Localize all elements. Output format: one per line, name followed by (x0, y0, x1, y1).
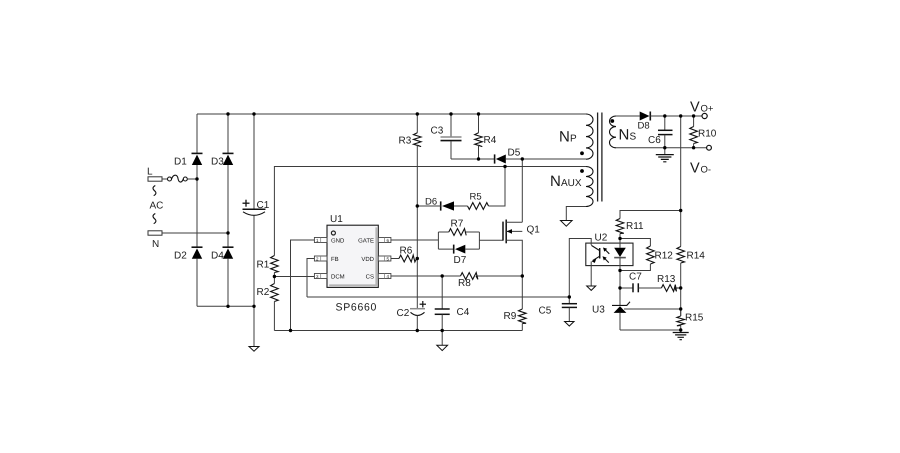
svg-text:D8: D8 (638, 121, 650, 132)
svg-text:U1: U1 (330, 214, 343, 225)
wire Vo- rail (616, 147, 707, 149)
capacitor C1 (243, 114, 270, 306)
svg-text:C1: C1 (257, 200, 270, 211)
capacitor C7 (620, 272, 661, 293)
node N terminal (148, 231, 162, 250)
pin 4 CS (366, 273, 391, 280)
svg-text:U2: U2 (595, 233, 608, 244)
op-amp U1 (SP6660 controller IC) (327, 214, 378, 314)
wire primary ground bus (274, 330, 522, 332)
svg-text:O-: O- (701, 165, 712, 176)
svg-text:R5: R5 (470, 192, 482, 203)
wire LED cathode down to U3 (619, 271, 621, 306)
node Vo- terminal (690, 145, 711, 176)
pin 5 VDD (361, 256, 391, 263)
transistor U2 phototransistor (591, 245, 600, 285)
ground (C5) (565, 322, 574, 327)
svg-text:C5: C5 (539, 306, 552, 317)
wire Naux bottom to ground (566, 207, 586, 221)
U2 light arrows (603, 248, 610, 263)
wire VDD column (R3 to D6 node to R6 node to C2) (416, 145, 418, 308)
transformer secondary Ns (610, 116, 637, 148)
diode D6 (417, 197, 467, 211)
svg-text:AUX: AUX (561, 178, 582, 189)
wire aux tap down to R5 (489, 167, 506, 207)
ground (C6, earth bars) (656, 148, 674, 162)
svg-text:R4: R4 (484, 135, 497, 146)
svg-text:VDD: VDD (361, 256, 374, 263)
svg-text:R15: R15 (685, 313, 704, 324)
ground (Naux) (561, 221, 573, 227)
resistor R10 (690, 116, 717, 148)
diode D5 (495, 148, 521, 164)
resistor R13 (657, 274, 681, 291)
wire N to bridge (162, 232, 228, 234)
wire U1 FB down to feedback line (307, 259, 314, 298)
svg-text:N: N (559, 129, 570, 146)
svg-text:N: N (619, 127, 630, 144)
wire U1 GND to ground bus (291, 240, 315, 331)
wire Ns top to D8 (616, 115, 640, 117)
wire left bridge column (196, 114, 198, 306)
diode D1 (174, 153, 203, 167)
wire top bus (197, 113, 586, 115)
wire clamp line A (C3/R4 to D5 to Np bottom) (451, 158, 586, 160)
svg-text:FB: FB (331, 256, 339, 263)
svg-text:R1: R1 (257, 260, 270, 271)
svg-text:R6: R6 (400, 246, 413, 257)
wire R7/D7 to Q1 gate (479, 239, 503, 241)
svg-text:D3: D3 (211, 157, 224, 168)
wire R1-R2 junction to DCM (274, 273, 314, 284)
svg-text:R10: R10 (698, 129, 717, 140)
wire U2 collector to FB column (569, 239, 591, 298)
pin 3 DCM (314, 273, 344, 280)
svg-text:SP6660: SP6660 (336, 302, 378, 314)
ground (U2 emitter) (587, 286, 596, 290)
svg-text:R3: R3 (399, 136, 412, 147)
svg-text:N: N (550, 173, 561, 190)
resistor R15 (677, 309, 704, 332)
svg-text:R14: R14 (687, 251, 706, 262)
resistor R5 (468, 192, 489, 210)
resistor R1 (257, 256, 279, 273)
diode D8 (638, 112, 651, 132)
svg-text:R9: R9 (504, 311, 517, 322)
svg-text:GATE: GATE (358, 237, 374, 244)
svg-text:L: L (147, 167, 153, 178)
wire drain column (line A to Q1 drain) (521, 159, 523, 222)
svg-text:D1: D1 (174, 157, 187, 168)
resistor R8 (458, 273, 478, 289)
capacitor C2 (397, 301, 427, 331)
resistor R9 (504, 276, 527, 331)
wire aux sense line (Naux top to R1) (274, 167, 586, 256)
wire FB line to optocoupler (307, 296, 569, 298)
resistor R3 (399, 114, 422, 147)
resistor R7 (with D7 parallel frame) (438, 219, 479, 250)
wire right bridge column (227, 114, 229, 306)
wire R11 top branch (620, 211, 681, 219)
transformer primary Np (559, 114, 593, 159)
svg-text:DCM: DCM (331, 273, 345, 280)
svg-text:D5: D5 (508, 148, 521, 159)
svg-text:D6: D6 (425, 197, 437, 208)
pin 6 GATE (358, 237, 391, 244)
svg-text:R13: R13 (657, 274, 676, 285)
node L terminal (147, 167, 162, 182)
svg-text:D2: D2 (174, 251, 187, 262)
svg-text:R2: R2 (257, 287, 270, 298)
node Vo+ terminal (690, 100, 714, 119)
resistor R6 (391, 246, 417, 262)
svg-text:CS: CS (366, 273, 374, 280)
svg-text:C7: C7 (629, 272, 642, 283)
svg-text:C3: C3 (431, 126, 444, 137)
diode U2 LED (614, 239, 626, 271)
diode D7 (454, 245, 467, 266)
svg-text:AC: AC (150, 201, 164, 212)
capacitor C6 (648, 116, 673, 148)
resistor R2 (257, 284, 279, 302)
opto-coupler U2 (586, 233, 633, 266)
resistor R4 (475, 114, 497, 159)
wire U3 anode bottom (620, 329, 681, 331)
svg-text:R7: R7 (451, 219, 464, 230)
transformer aux winding Naux (550, 167, 593, 207)
svg-text:P: P (570, 134, 577, 145)
svg-text:R11: R11 (626, 221, 644, 232)
node AC source (150, 186, 164, 224)
svg-text:Q1: Q1 (527, 225, 541, 236)
diode D3 (211, 153, 234, 167)
wire Vo+ feedback column (680, 116, 682, 247)
transformer core (598, 113, 602, 202)
wire R2 to ground bus (273, 302, 275, 331)
pin 2 FB (314, 256, 338, 263)
diode D2 (174, 247, 203, 261)
shunt regulator U3 (592, 302, 630, 330)
wire GATE to R7/D7 network (391, 239, 439, 241)
svg-text:D4: D4 (211, 251, 224, 262)
pin 1 GND (314, 237, 345, 244)
resistor R14 (677, 247, 705, 317)
wire Vo+ rail (650, 115, 702, 117)
resistor R11 (616, 219, 644, 239)
ground (C1) (249, 306, 259, 351)
svg-text:C6: C6 (648, 135, 661, 146)
svg-text:U3: U3 (592, 305, 605, 316)
resistor R12 (620, 239, 673, 271)
svg-text:R12: R12 (655, 251, 674, 262)
wire U3 ref to divider (624, 308, 681, 310)
capacitor C4 (435, 276, 470, 331)
diode D4 (211, 247, 234, 261)
svg-text:N: N (152, 239, 159, 250)
svg-text:GND: GND (331, 237, 345, 244)
svg-text:O+: O+ (701, 104, 714, 115)
wire bridge bottom (197, 305, 254, 307)
capacitor C3 (431, 114, 462, 159)
svg-text:R8: R8 (458, 278, 471, 289)
svg-text:D7: D7 (454, 255, 467, 266)
svg-text:C2: C2 (397, 308, 410, 319)
transistor Q1 (503, 220, 540, 277)
svg-text:S: S (630, 132, 637, 143)
wire CS line (U1 CS - C4 tap - R8 - source node) (391, 275, 522, 277)
capacitor C5 (539, 297, 578, 321)
svg-text:C4: C4 (457, 307, 470, 318)
svg-text:V: V (690, 161, 700, 177)
ground (primary bus) (437, 331, 448, 351)
svg-text:V: V (690, 100, 700, 116)
ground (R15, earth bars) (673, 333, 689, 340)
fuse F1 (162, 175, 197, 182)
